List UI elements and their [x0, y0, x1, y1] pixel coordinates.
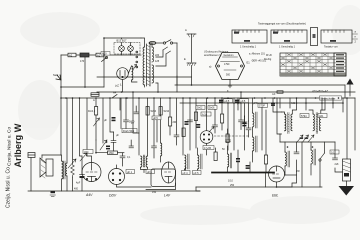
pot arrow tone — [68, 159, 76, 168]
svg-text:A4: A4 — [113, 91, 117, 95]
capacitor C35 — [134, 106, 139, 114]
wire col x306 stub — [305, 98, 307, 110]
lamp La1 — [119, 43, 125, 56]
thick shield bar — [212, 172, 274, 174]
electrolytic block C21 — [335, 159, 351, 181]
svg-text:a. Allstrom 101: a. Allstrom 101 — [249, 53, 265, 56]
capacitor C32 blob — [271, 103, 275, 106]
power transformer T1 core — [147, 44, 151, 86]
wire stub x248b — [248, 103, 250, 121]
wire power top feed — [104, 37, 122, 39]
svg-text:A,5n: A,5n — [202, 113, 208, 116]
junction dropper tap — [84, 86, 86, 88]
svg-text:Dr02: Dr02 — [197, 107, 203, 110]
wire lamp bottom link — [110, 54, 141, 56]
T1 secondary LT winding — [152, 65, 154, 83]
label box A5n — [201, 112, 211, 116]
wire lamp top link — [122, 38, 142, 39]
IF transformer T6 left winding — [309, 110, 314, 131]
label CV1 — [203, 146, 214, 150]
svg-text:220: 220 — [155, 54, 160, 57]
wire col x290 stub — [289, 98, 291, 108]
svg-text:L4V: L4V — [164, 194, 171, 198]
wire mains rail y92 — [97, 91, 355, 93]
svg-text:Netz: Netz — [53, 73, 59, 77]
wire V2 bottom bus — [117, 185, 152, 188]
wire chassis top line y85 — [175, 84, 345, 86]
svg-text:170: 170 — [80, 60, 85, 63]
connector terminal left — [28, 153, 35, 158]
wire secondary top to switch — [149, 43, 152, 47]
wire R tone top — [72, 98, 74, 163]
resistor R11 — [194, 112, 197, 121]
svg-text:Tastatur von: Tastatur von — [324, 46, 338, 49]
capacitor C el output — [76, 156, 85, 191]
wire x338 lower — [335, 168, 343, 172]
band coil L6 — [198, 148, 203, 172]
capacitor C25 — [333, 142, 338, 160]
capacitor C10 — [174, 98, 179, 145]
wire bar drop x265 — [265, 173, 267, 187]
ground symbol main — [50, 191, 56, 197]
speaker LS — [40, 158, 53, 178]
IF transformer T5 core — [288, 113, 289, 134]
svg-text:5000: 5000 — [129, 121, 135, 124]
svg-text:Dreh 50Ω: Dreh 50Ω — [123, 129, 134, 133]
wire R tone bottom — [72, 177, 74, 191]
capacitor C8 — [124, 120, 135, 129]
wire col x333 stub — [332, 98, 334, 108]
svg-text:A61: A61 — [319, 115, 324, 118]
voltage selector plug points — [133, 51, 138, 70]
svg-text:5T0P: 5T0P — [259, 105, 265, 108]
label box uF right — [146, 170, 155, 174]
wire col x133 — [133, 92, 139, 133]
svg-text:EBL: EBL — [272, 194, 279, 198]
trimmer C13 — [239, 120, 244, 130]
capacitor C7 — [120, 153, 125, 166]
arrow down ground right — [339, 186, 355, 196]
capacitor C30 blob — [219, 100, 223, 103]
resistor R mains dropper — [80, 53, 89, 63]
wire secondary taps right — [156, 50, 163, 57]
wire bottom step — [196, 187, 200, 191]
output tube V1 AL4 — [82, 163, 101, 182]
svg-text:DDV: DDV — [109, 194, 117, 198]
wire col x110 — [110, 98, 114, 132]
resistor R zigzag tone — [71, 163, 75, 177]
svg-text:Geramon: Geramon — [224, 54, 235, 57]
wire LT winding bottom — [156, 83, 158, 92]
wire lower bus mid — [196, 186, 292, 188]
wire mid left rail y87 — [61, 86, 104, 88]
choke L8 — [285, 142, 290, 175]
switch S4 bottom — [319, 142, 325, 187]
rectifier tube AZ1 — [117, 68, 129, 92]
label box uF5 c — [152, 116, 161, 120]
wire antenna drop x177 — [176, 76, 178, 92]
output transformer T2 primary — [62, 161, 64, 179]
pot arrow P2 — [297, 135, 303, 142]
capacitor C31 blob — [235, 100, 239, 103]
band coil L5 — [185, 154, 190, 172]
pushbutton unit box K2 — [271, 30, 307, 43]
wire col x215 — [214, 98, 216, 125]
coil pack hexagon U1 — [216, 53, 245, 80]
capacitor C15 — [236, 150, 240, 172]
label box Dr02 — [196, 106, 205, 110]
pot arrow V1 grid — [80, 153, 87, 161]
label box A1 — [96, 53, 104, 57]
svg-text:150: 150 — [152, 191, 157, 194]
wire right edge drop x355 — [354, 98, 356, 150]
wire C21 bottom to arrow — [346, 181, 348, 186]
mains switch S2 — [163, 40, 177, 44]
wire col x121 — [120, 98, 122, 129]
label box right2 — [330, 150, 339, 154]
wire ground bus — [28, 190, 200, 192]
T1 secondary HT winding — [152, 47, 154, 62]
trimmer cap C26 — [242, 116, 247, 124]
antenna symbol — [185, 28, 196, 62]
pot arrow P4 — [308, 135, 314, 142]
capacitor C14 — [246, 121, 251, 137]
wire T2 top — [60, 155, 63, 161]
capacitor C36 blob — [246, 165, 250, 169]
svg-text:A4V: A4V — [85, 193, 93, 197]
capacitor C12 — [226, 140, 231, 150]
svg-text:A61: A61 — [291, 102, 296, 105]
wire R6 right — [118, 152, 125, 154]
wire col x190 — [189, 98, 191, 150]
resistor R5c — [159, 107, 170, 116]
wire speaker link — [41, 155, 43, 158]
svg-text:1/10: 1/10 — [228, 180, 233, 183]
heater winding Lh — [132, 66, 133, 80]
wire feed x273 — [273, 98, 282, 112]
resistor R8 — [169, 98, 177, 135]
switching table grid — [280, 53, 346, 76]
svg-text:μF 4: μF 4 — [183, 172, 189, 175]
svg-text:1790: 1790 — [224, 63, 230, 66]
wire col x228 — [227, 98, 229, 140]
wire col x157 — [156, 120, 158, 142]
fuse Si1 — [149, 41, 156, 44]
IF transformer T4 lower winding — [253, 127, 258, 162]
coil L7 — [228, 146, 232, 172]
wire T1 primary top — [141, 38, 145, 47]
capacitor C6 — [105, 132, 116, 151]
wire switch feed drop — [176, 43, 178, 85]
screen box output stage — [151, 169, 176, 187]
wire antenna feed left — [97, 76, 192, 78]
wire col x262 — [261, 98, 263, 150]
output transformer T2 secondary — [66, 163, 67, 176]
wire stub x250 — [249, 162, 251, 172]
wire dropper tap — [84, 57, 86, 87]
wire x343 drop — [342, 98, 344, 112]
capacitor C33 blobs — [106, 146, 110, 150]
svg-text:2x8: 2x8 — [335, 163, 340, 166]
svg-text:Dm0,1: Dm0,1 — [88, 110, 96, 113]
svg-text:μF 5: μF 5 — [194, 172, 200, 175]
svg-text:1 Umschaltg 1: 1 Umschaltg 1 — [279, 46, 296, 49]
wire col x266 — [265, 110, 267, 155]
wire col x139 — [138, 98, 140, 155]
svg-text:μF,5: μF,5 — [225, 100, 230, 103]
resistor R9 — [221, 98, 224, 130]
wire C21 top — [346, 98, 348, 159]
wire grid feed x79.5 — [80, 98, 83, 156]
junction dots mid2 — [182, 91, 266, 99]
pushbutton unit box K3 — [321, 30, 352, 43]
switch arrow S5 — [94, 118, 100, 126]
wire col x280 stub — [279, 98, 281, 108]
svg-text:μF,5: μF,5 — [253, 102, 258, 105]
label box STOP — [258, 104, 268, 108]
wire col x322 stub — [321, 98, 323, 110]
label boxes right column — [300, 114, 309, 118]
wire stub x238b — [237, 98, 239, 110]
pin labels right edge — [353, 31, 358, 44]
svg-text:M UK: M UK — [266, 54, 272, 57]
svg-text:A: A — [185, 28, 187, 32]
svg-text:Tastenaggregat von vorn (Druck: Tastenaggregat von vorn (Druckknopfseite… — [258, 23, 306, 26]
wire feed x277 — [277, 98, 282, 134]
label box uF5 b — [240, 99, 249, 103]
svg-text:μF 1: μF 1 — [127, 171, 133, 174]
label box uF 4 — [182, 171, 191, 175]
capacitor C9 — [152, 98, 157, 158]
wire col x241 — [240, 92, 242, 120]
svg-text:0,1: 0,1 — [331, 151, 335, 154]
wire col x302 low — [301, 142, 303, 187]
wire HT bus y98 — [61, 97, 355, 99]
wire hexagon bottom lead — [229, 80, 231, 85]
svg-text:1 Umschaltg 1: 1 Umschaltg 1 — [240, 46, 257, 49]
wire upper left rail y55 — [61, 54, 104, 56]
coil L4 — [161, 98, 162, 162]
resistor R15 — [182, 128, 185, 137]
svg-text:μF,5: μF,5 — [153, 117, 158, 120]
choke L9 — [311, 142, 316, 175]
resistor R16 — [214, 148, 217, 161]
svg-text:E1: E1 — [247, 61, 251, 65]
label box uF left — [126, 170, 135, 174]
variable capacitor CV1 — [200, 98, 214, 155]
wire T3 bottoms — [141, 167, 148, 169]
svg-text:Dr06: Dr06 — [209, 107, 215, 110]
wire V3 bottom link — [146, 183, 176, 190]
wire power left drop — [103, 38, 105, 87]
wire feed drop x280 — [279, 134, 281, 142]
svg-text:W/10: W/10 — [151, 110, 157, 113]
junction antenna to chassis line — [191, 84, 193, 86]
junction dots power — [60, 37, 159, 99]
capacitor C20 blobs — [300, 138, 309, 139]
label box uF 5 — [193, 171, 202, 175]
wire T1 primary bottom — [144, 85, 146, 87]
junction dot x127 — [126, 97, 128, 99]
resistor R5 — [88, 98, 98, 140]
label netz bus — [320, 96, 342, 100]
capacitor C23 — [188, 120, 193, 122]
junction dots rail y103 — [206, 102, 344, 104]
wire V4 links — [276, 182, 278, 187]
svg-text:μF 1: μF 1 — [147, 171, 153, 174]
wire P1 drop — [102, 98, 104, 143]
connector strip small box — [311, 28, 318, 46]
wire speaker top — [42, 154, 61, 156]
IF transformer T5 left winding — [282, 112, 286, 131]
junction dots right — [274, 97, 348, 188]
output transformer T2 core — [64, 161, 65, 179]
resistor R10 — [264, 155, 267, 172]
svg-text:2(V)+B01+AZ: 2(V)+B01+AZ — [311, 89, 328, 93]
svg-text:A2: A2 — [69, 53, 73, 57]
svg-text:μF,5: μF,5 — [237, 102, 242, 105]
tube V4 end — [269, 166, 285, 182]
wire col x244 low — [244, 116, 246, 150]
wire left rail x61 — [60, 55, 62, 155]
wire bottom right bus — [277, 186, 323, 188]
wire choke bottoms link — [285, 174, 297, 176]
wire col x234 — [233, 98, 235, 150]
IF transformer T3 windings — [141, 155, 148, 167]
label Dreh pot box — [122, 129, 137, 134]
switch S1 mains on rail — [112, 95, 117, 99]
T1 primary winding — [143, 47, 144, 85]
svg-text:17+65: 17+65 — [204, 147, 212, 150]
lamp La2 — [128, 43, 134, 56]
table x marks — [282, 54, 333, 72]
switch A20 — [101, 52, 110, 62]
wire T2 sec leads — [66, 98, 68, 163]
wire V1 anode up — [87, 156, 92, 163]
wire heater links — [128, 66, 131, 74]
capacitor C28 blobs — [196, 124, 200, 128]
wire col x126 drop — [125, 98, 127, 120]
wire chassis corner right — [344, 85, 346, 98]
svg-text:125: 125 — [155, 60, 160, 63]
plus mark hexagon — [228, 84, 232, 88]
pushbutton unit box K1 — [232, 30, 267, 43]
label box Dr06 — [208, 106, 217, 110]
svg-text:Drehtg: Drehtg — [264, 58, 272, 61]
wire T3 right lead — [147, 98, 149, 156]
switch S3 taps — [163, 47, 171, 54]
svg-text:4μF: 4μF — [76, 182, 81, 185]
wire col x196 — [195, 98, 197, 148]
svg-text:A: A — [93, 98, 95, 102]
IF transformer T6 core — [316, 113, 317, 134]
svg-text:E: E — [184, 57, 186, 61]
capacitor C24 — [294, 142, 299, 154]
label box A2 — [68, 53, 76, 57]
IF transformer T5 right winding — [291, 98, 297, 131]
small labels row y104 — [237, 93, 296, 105]
svg-text:W/10: W/10 — [164, 110, 170, 113]
svg-text:5794: 5794 — [301, 115, 307, 118]
resistor R5b — [146, 107, 157, 116]
dashed gang link — [214, 135, 248, 137]
capacitor C5b — [104, 117, 116, 122]
wire col x183 — [182, 98, 184, 155]
svg-text:Czeija, Nissl u. Co: Czeija, Nissl u. Co — [7, 126, 13, 166]
svg-text:anschliessen ! ): anschliessen ! ) — [204, 54, 222, 57]
wire R6 left — [96, 140, 108, 153]
tube V2 DDV — [109, 165, 125, 185]
svg-text:a): a) — [209, 65, 211, 69]
capacitor C29 blobs — [242, 123, 246, 127]
svg-text:250: 250 — [230, 184, 235, 187]
svg-text:A1: A1 — [97, 53, 101, 57]
resistor R14 — [226, 129, 229, 143]
mains plug arrow left — [56, 75, 61, 80]
svg-text:400: 400 — [74, 188, 79, 191]
svg-text:500: 500 — [226, 74, 231, 77]
capacitor C27 blobs — [185, 121, 189, 125]
wire stub x120 — [119, 98, 121, 110]
wire T2 bottom — [61, 179, 63, 191]
label box A61b — [318, 114, 327, 118]
svg-text:Arlberg W: Arlberg W — [13, 123, 23, 167]
capacitor C34 — [129, 140, 134, 148]
earth connector symbol — [184, 57, 196, 85]
IF transformer T4 upper winding — [253, 98, 258, 128]
pot P1 volume — [100, 140, 107, 150]
capacitor C11 — [213, 125, 218, 133]
tube V3 LV — [162, 162, 176, 183]
capacitor C22 on rail — [277, 91, 283, 93]
grid cap V1 — [83, 150, 93, 155]
arrow up right — [346, 79, 353, 97]
resistor R6 horizontal — [108, 151, 118, 155]
wire stub x244b — [244, 103, 246, 116]
svg-text:Czeija, Nissl u. Co: Czeija, Nissl u. Co — [6, 167, 12, 208]
pilot lamps dashed enclosure — [114, 43, 140, 55]
IF transformer T6 right winding — [319, 98, 325, 131]
wire left edge drop x87 — [86, 98, 88, 156]
svg-text:mF: mF — [272, 93, 276, 96]
pot arrow P3 — [303, 135, 309, 142]
svg-text:1(W): 1(W) — [109, 152, 114, 155]
wire bottom right step — [292, 160, 297, 187]
wire terminal to bus — [30, 158, 32, 192]
label box uF5 a — [224, 99, 233, 103]
wire rail y142 right — [280, 141, 335, 143]
junction dots mid — [95, 91, 171, 153]
fuse A main — [91, 93, 99, 102]
wire rail y103 mid — [180, 102, 343, 104]
